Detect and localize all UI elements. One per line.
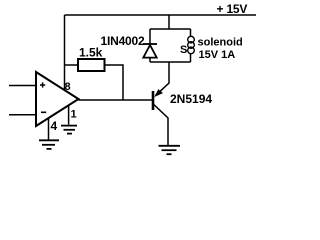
op-amp U1 triangle (36, 72, 79, 126)
diode D 1N4002 symbol (143, 44, 157, 58)
wire op-amp output to transistor base (79, 99, 153, 101)
wire diode branch upper (149, 29, 151, 44)
wire resistor left lead (65, 64, 79, 66)
svg-text:1IN4002: 1IN4002 (101, 34, 145, 48)
inductor L solenoid coil (188, 36, 195, 53)
svg-text:+ 15V: + 15V (217, 2, 248, 16)
ground under transistor emitter (159, 146, 181, 154)
wire diode branch lower (149, 58, 151, 62)
wire solenoid branch drop from rail (168, 15, 170, 29)
svg-text:S: S (180, 44, 187, 56)
wire parallel box top edge (150, 28, 191, 30)
op-amp minus input marker (41, 111, 46, 113)
svg-text:1: 1 (71, 109, 77, 121)
wire inverting input (9, 114, 36, 116)
wire supply vertical to op-amp pin 8 (64, 15, 66, 91)
ground at op-amp pin 4 (39, 140, 59, 149)
resistor R 1.5k body (78, 59, 105, 71)
svg-text:2N5194: 2N5194 (170, 92, 212, 106)
wire transistor collector lead (154, 105, 168, 146)
svg-text:1.5k: 1.5k (79, 46, 103, 60)
op-amp plus input marker (40, 82, 45, 87)
wire emitter drop from box bottom (156, 62, 170, 96)
svg-text:4: 4 (51, 119, 58, 133)
wire non-inverting input (9, 85, 36, 87)
wire +15V top rail (65, 14, 257, 16)
transistor Q 2N5194 bar (152, 91, 155, 110)
wire coil branch lower (190, 54, 192, 63)
transistor emitter arrowhead (155, 90, 162, 96)
ground at op-amp pin 1 (61, 126, 77, 134)
wire resistor right lead bend to output (105, 65, 124, 100)
wire op-amp pin 1 to ground (68, 106, 70, 125)
wire coil branch upper (190, 29, 192, 37)
svg-text:15V 1A: 15V 1A (199, 49, 236, 61)
svg-text:8: 8 (65, 81, 71, 93)
wire op-amp pin 4 to ground (48, 118, 50, 140)
wire parallel box bottom edge (150, 61, 191, 63)
svg-text:solenoid: solenoid (198, 37, 243, 49)
